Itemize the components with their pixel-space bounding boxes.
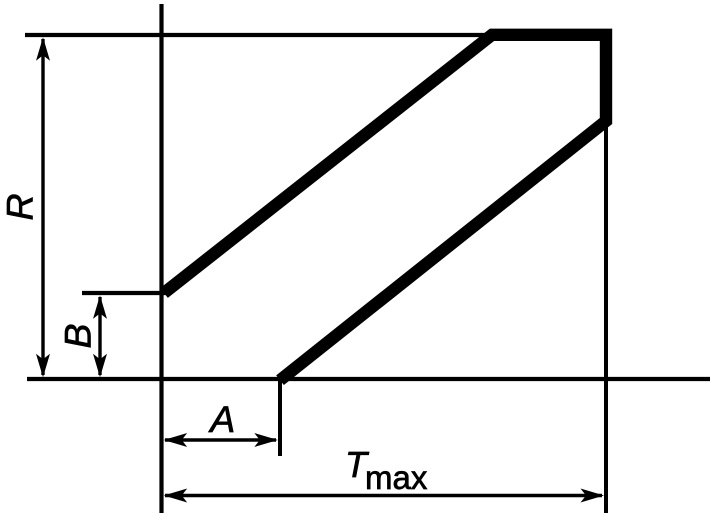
dimension B line xyxy=(98,297,101,375)
bottom reference line xyxy=(27,377,710,381)
svg-text:B: B xyxy=(56,323,98,348)
dimension B arrowhead down xyxy=(93,354,107,378)
thick profile outline xyxy=(164,35,606,380)
dimension T max arrowhead left xyxy=(164,489,188,503)
dimension R arrowhead up xyxy=(36,37,50,61)
left vertical reference line xyxy=(159,4,163,513)
dimension T max line xyxy=(165,494,602,497)
dimension B arrowhead up xyxy=(93,295,107,319)
right extension line xyxy=(604,120,608,513)
top reference line xyxy=(25,33,608,37)
svg-text:R: R xyxy=(0,193,41,220)
dimension A arrowhead right xyxy=(254,433,278,447)
B top extension line xyxy=(82,291,166,295)
svg-text:A: A xyxy=(208,398,235,440)
dimension T max arrowhead right xyxy=(581,489,605,503)
dimension R arrowhead down xyxy=(36,354,50,378)
svg-text:max: max xyxy=(365,459,428,496)
A right extension line xyxy=(278,379,282,456)
dimension A line xyxy=(165,438,276,441)
dimension R line xyxy=(41,39,44,375)
dimension A arrowhead left xyxy=(164,433,188,447)
